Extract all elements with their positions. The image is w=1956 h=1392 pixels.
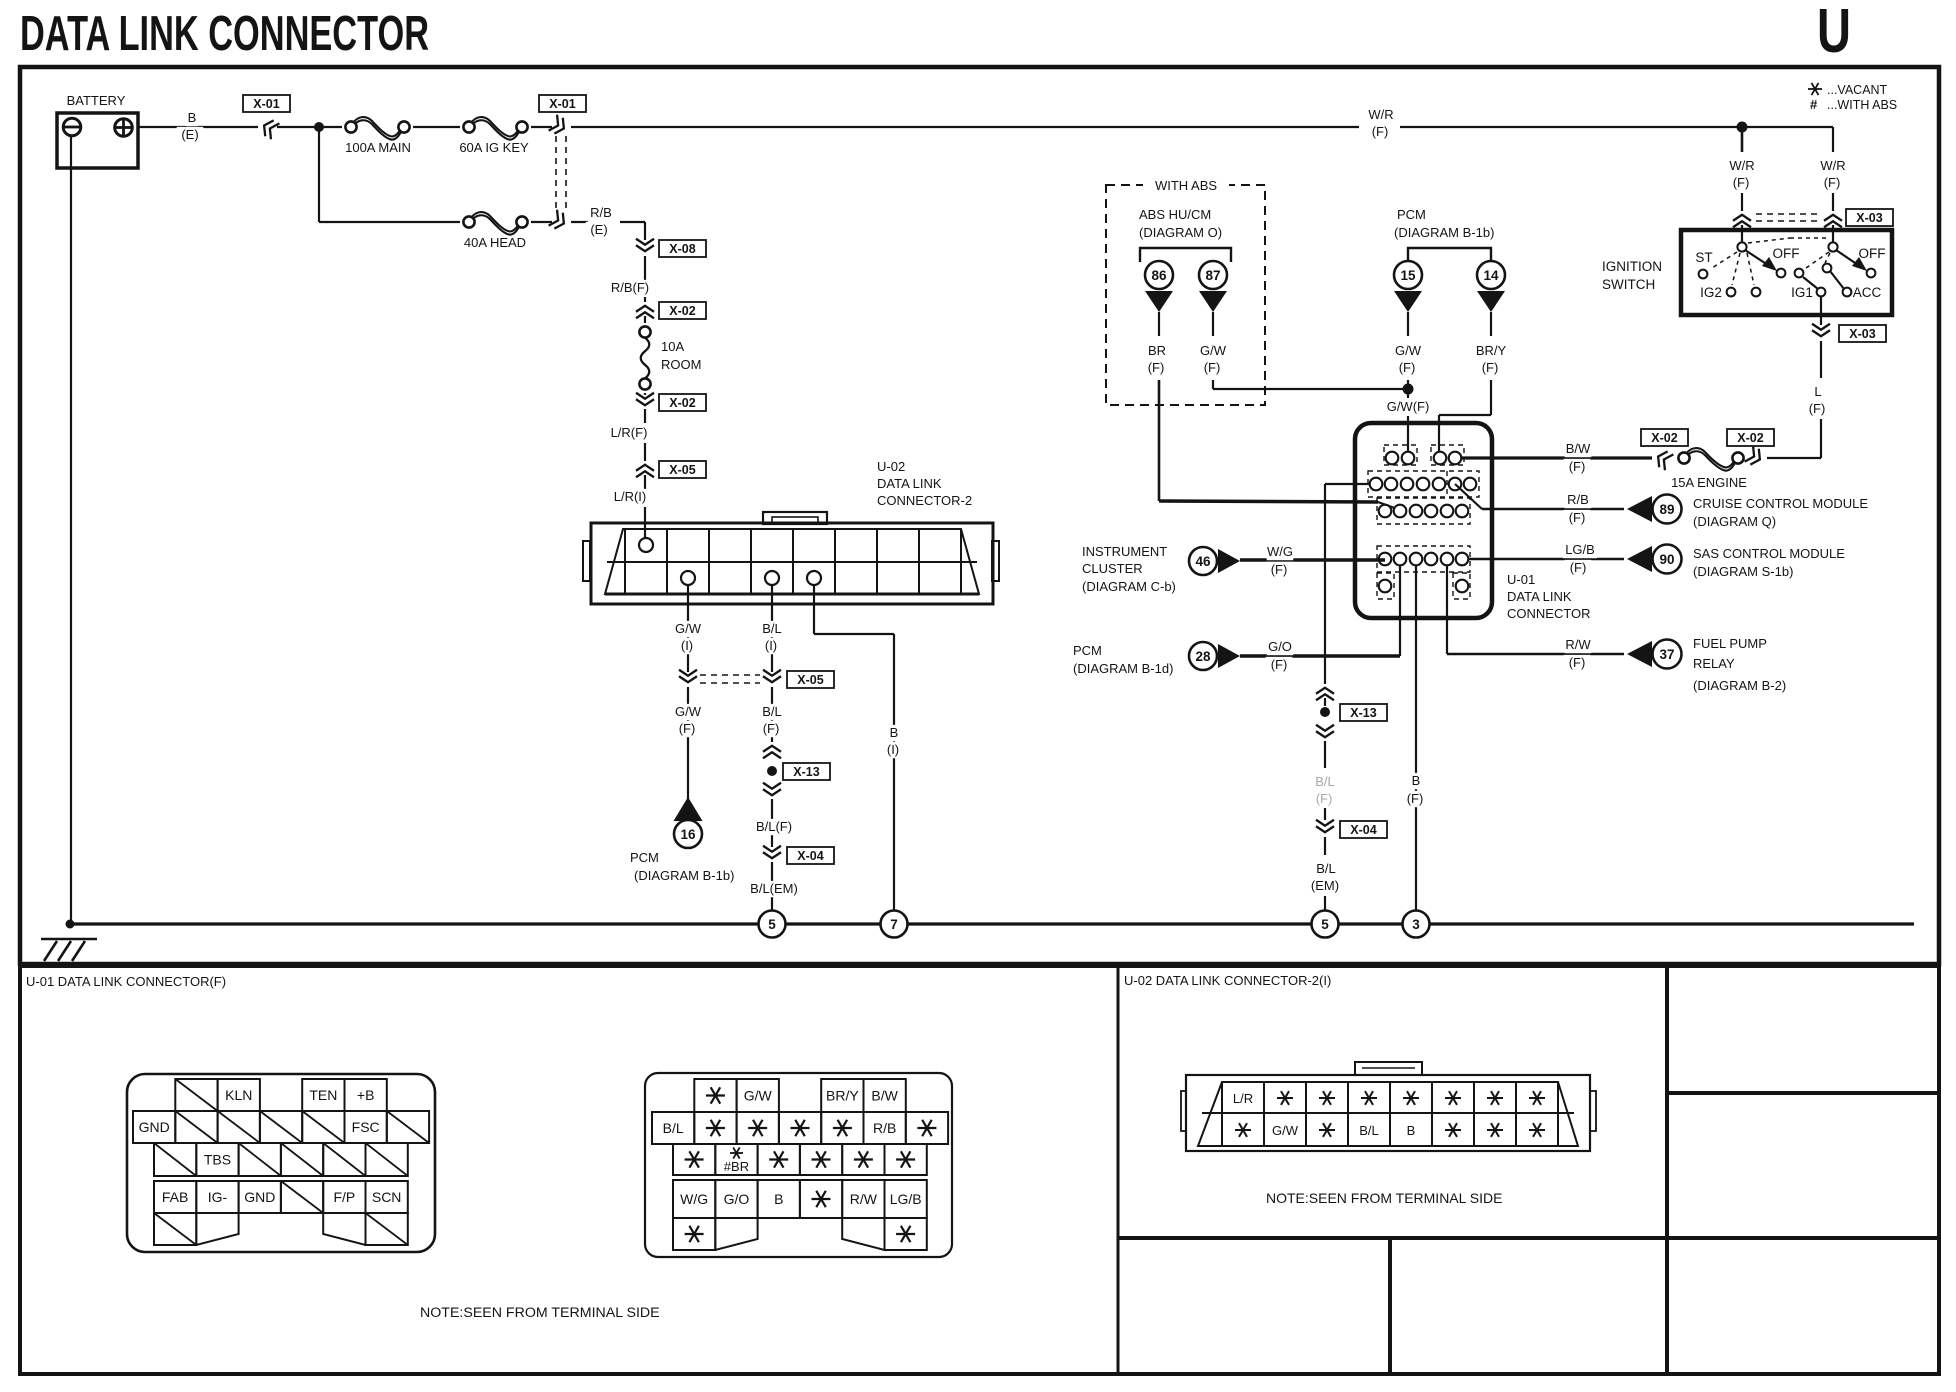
U-01 pins row5	[1379, 580, 1392, 593]
fuse 60A IG KEY	[471, 117, 521, 136]
U-01 pins row3	[1379, 505, 1392, 518]
svg-text:W/G: W/G	[680, 1191, 708, 1207]
svg-text:G/W: G/W	[1272, 1123, 1299, 1138]
svg-text:X-02: X-02	[669, 304, 695, 318]
svg-text:G/W: G/W	[744, 1088, 773, 1104]
svg-text:RELAY: RELAY	[1693, 656, 1735, 671]
svg-text:W/R: W/R	[1368, 107, 1393, 122]
ground node 3	[1403, 911, 1430, 938]
wire W/G(F)	[1240, 558, 1385, 561]
svg-text:(EM): (EM)	[1311, 878, 1339, 893]
svg-text:37: 37	[1659, 647, 1674, 662]
connector X-05	[636, 471, 654, 477]
svg-text:FSC: FSC	[352, 1119, 380, 1135]
svg-text:(E): (E)	[590, 222, 607, 237]
svg-text:X-01: X-01	[253, 97, 279, 111]
wire G/W(F) from 15	[1407, 312, 1409, 336]
svg-text:L/R(I): L/R(I)	[614, 489, 647, 504]
svg-text:B/L: B/L	[663, 1120, 684, 1136]
svg-text:OFF: OFF	[1859, 246, 1886, 261]
svg-text:7: 7	[890, 917, 898, 932]
svg-text:SCN: SCN	[372, 1189, 402, 1205]
svg-text:CRUISE CONTROL MODULE: CRUISE CONTROL MODULE	[1693, 496, 1868, 511]
svg-text:PCM: PCM	[1397, 207, 1426, 222]
svg-text:G/W: G/W	[675, 704, 702, 719]
svg-text:(I): (I)	[887, 742, 899, 757]
svg-text:ST: ST	[1695, 250, 1712, 265]
svg-text:NOTE:SEEN FROM TERMINAL SIDE: NOTE:SEEN FROM TERMINAL SIDE	[1266, 1190, 1502, 1206]
svg-text:...VACANT: ...VACANT	[1827, 83, 1888, 97]
svg-text:CLUSTER: CLUSTER	[1082, 561, 1143, 576]
U-02 pinout row5	[673, 1218, 715, 1250]
svg-text:G/O: G/O	[724, 1191, 750, 1207]
svg-text:X-03: X-03	[1849, 327, 1875, 341]
ignition switch left rotor	[1737, 242, 1746, 251]
wire B(I) from U-02 to ground 7	[813, 585, 815, 634]
wire to X-01 male	[531, 126, 552, 128]
svg-text:B/L: B/L	[762, 621, 782, 636]
svg-text:(F): (F)	[1316, 791, 1333, 806]
svg-text:LG/B: LG/B	[890, 1191, 922, 1207]
U-02 pin L/R	[639, 538, 653, 552]
svg-text:60A IG KEY: 60A IG KEY	[459, 140, 529, 155]
svg-text:15: 15	[1400, 268, 1416, 283]
wire L/R(F)	[644, 409, 646, 423]
svg-text:B/L(F): B/L(F)	[756, 819, 792, 834]
svg-text:U-01 DATA LINK CONNECTOR(F): U-01 DATA LINK CONNECTOR(F)	[26, 974, 226, 989]
svg-text:X-01: X-01	[549, 97, 575, 111]
svg-text:(DIAGRAM S-1b): (DIAGRAM S-1b)	[1693, 564, 1793, 579]
bracket PCM terminals	[1408, 248, 1491, 262]
legend vacant	[1808, 88, 1822, 90]
svg-text:X-05: X-05	[669, 463, 695, 477]
wire B/L(F) upper	[771, 687, 773, 742]
svg-text:ROOM: ROOM	[661, 357, 701, 372]
svg-text:B/W: B/W	[871, 1088, 898, 1104]
svg-text:U-02 DATA LINK CONNECTOR-2(I): U-02 DATA LINK CONNECTOR-2(I)	[1124, 973, 1331, 988]
battery	[57, 113, 138, 168]
svg-text:(I): (I)	[765, 638, 777, 653]
wire G/O(F)	[1240, 654, 1400, 657]
svg-text:SAS CONTROL MODULE: SAS CONTROL MODULE	[1693, 546, 1845, 561]
U-02 pin B/L	[765, 571, 779, 585]
svg-text:X-02: X-02	[1737, 431, 1763, 445]
terminal arrow 90 SAS control module	[1627, 546, 1652, 572]
svg-text:R/B(F): R/B(F)	[611, 280, 649, 295]
svg-text:B: B	[1412, 773, 1421, 788]
svg-text:W/G: W/G	[1267, 544, 1293, 559]
U-01 pinout row5	[154, 1213, 196, 1245]
wire LG/B(F) to SAS control	[1469, 558, 1624, 561]
svg-text:(F): (F)	[1482, 360, 1499, 375]
svg-text:FUEL PUMP: FUEL PUMP	[1693, 636, 1767, 651]
U-02 pinout row1	[694, 1079, 736, 1112]
svg-text:B: B	[774, 1191, 783, 1207]
svg-text:PCM: PCM	[1073, 643, 1102, 658]
svg-text:R/B: R/B	[873, 1120, 896, 1136]
svg-text:GND: GND	[244, 1189, 275, 1205]
junction node main feed	[314, 122, 324, 132]
svg-text:B/W: B/W	[1566, 441, 1591, 456]
svg-text:(DIAGRAM O): (DIAGRAM O)	[1139, 225, 1222, 240]
U-01 pin group boxes	[1384, 445, 1417, 465]
connector X-13 junction left	[763, 752, 781, 758]
svg-text:B/L(EM): B/L(EM)	[750, 881, 798, 896]
svg-text:R/W: R/W	[1565, 637, 1591, 652]
svg-text:#BR: #BR	[724, 1159, 749, 1174]
svg-text:CONNECTOR-2: CONNECTOR-2	[877, 493, 972, 508]
connector X-02 upper	[636, 312, 654, 318]
svg-text:FAB: FAB	[162, 1189, 188, 1205]
svg-text:B/L: B/L	[762, 704, 782, 719]
svg-text:(DIAGRAM B-1b): (DIAGRAM B-1b)	[1394, 225, 1494, 240]
wire R/B(F)	[644, 256, 646, 280]
svg-text:WITH ABS: WITH ABS	[1155, 178, 1217, 193]
dashed connector join X-05	[700, 674, 760, 676]
svg-text:(F): (F)	[1204, 360, 1221, 375]
svg-text:G/O: G/O	[1268, 639, 1292, 654]
U-02 pinout row3	[673, 1144, 715, 1175]
connector X-02 lower	[644, 393, 646, 395]
svg-text:IG1: IG1	[1791, 285, 1813, 300]
svg-text:U-01: U-01	[1507, 572, 1535, 587]
connector X-04 left	[763, 846, 781, 852]
bottom panel frame	[20, 966, 1939, 1374]
wire BR/Y from 14	[1490, 312, 1492, 336]
svg-text:3: 3	[1412, 917, 1420, 932]
panel divider horizontal middle	[1118, 1236, 1939, 1240]
panel divider left	[1117, 966, 1120, 1374]
svg-text:...WITH ABS: ...WITH ABS	[1827, 98, 1897, 112]
wire to 10A ROOM fuse	[644, 316, 646, 323]
svg-text:B/L: B/L	[1315, 774, 1335, 789]
svg-text:ACC: ACC	[1853, 285, 1882, 300]
wire L/R(I)	[644, 475, 646, 489]
svg-text:KLN: KLN	[225, 1087, 252, 1103]
terminal 46 instrument cluster	[1189, 547, 1217, 575]
svg-text:OFF: OFF	[1773, 246, 1800, 261]
svg-text:+B: +B	[357, 1087, 375, 1103]
fuse 100A MAIN	[353, 117, 403, 136]
svg-text:16: 16	[680, 827, 696, 842]
svg-text:(F): (F)	[679, 721, 696, 736]
connector X-05 pair right	[763, 670, 781, 676]
connector X-03 lower	[1812, 324, 1830, 330]
wire B/L(F) lower	[771, 799, 773, 847]
U-01 pins row2	[1370, 478, 1383, 491]
svg-text:L/R(F): L/R(F)	[611, 425, 648, 440]
svg-text:(F): (F)	[1569, 459, 1586, 474]
svg-text:89: 89	[1659, 502, 1674, 517]
ground node 5 left	[759, 911, 786, 938]
svg-text:NOTE:SEEN FROM TERMINAL SIDE: NOTE:SEEN FROM TERMINAL SIDE	[420, 1305, 660, 1321]
svg-text:(F): (F)	[763, 721, 780, 736]
svg-text:PCM: PCM	[630, 850, 659, 865]
svg-text:TEN: TEN	[309, 1087, 337, 1103]
svg-text:IG2: IG2	[1700, 285, 1722, 300]
svg-text:(F): (F)	[1809, 401, 1826, 416]
U-02 pinout row4	[673, 1180, 715, 1218]
U-02 pin G/W	[681, 571, 695, 585]
U-01 pinout connector outline	[127, 1074, 435, 1252]
wire R/B(E)	[571, 221, 588, 223]
svg-text:L/R: L/R	[1233, 1091, 1253, 1106]
connector X-05 pair left	[679, 670, 697, 676]
connector X-01 male head circuit	[549, 210, 568, 232]
branch wire to 40A HEAD fuse	[318, 127, 320, 222]
svg-text:L: L	[1814, 384, 1821, 399]
terminal 28 PCM	[1189, 642, 1217, 670]
wire B/L(F) right chain	[1325, 483, 1369, 485]
svg-text:W/R: W/R	[1729, 158, 1754, 173]
connector X-03 pair	[1733, 221, 1751, 227]
svg-text:5: 5	[768, 917, 776, 932]
svg-text:DATA LINK: DATA LINK	[877, 476, 942, 491]
wire B(F) to ground 3	[1415, 566, 1417, 911]
svg-text:40A HEAD: 40A HEAD	[464, 235, 526, 250]
svg-text:B/L: B/L	[1359, 1123, 1379, 1138]
wire W/R to ignition switch area	[571, 126, 1359, 128]
svg-text:R/B: R/B	[1567, 492, 1589, 507]
svg-text:BR/Y: BR/Y	[1476, 343, 1507, 358]
terminal 14	[1477, 261, 1505, 289]
dashed connector join X-01	[555, 136, 557, 212]
U-01 pins row1	[1386, 452, 1399, 465]
ground node 7	[881, 911, 908, 938]
svg-text:X-03: X-03	[1856, 211, 1882, 225]
connector X-02 engine right	[1727, 429, 1774, 446]
wire L(F) from IG1	[1820, 296, 1822, 325]
terminal arrow PCM pin 16	[674, 797, 703, 821]
fuse 40A HEAD	[471, 212, 521, 231]
svg-text:BR: BR	[1148, 343, 1166, 358]
panel divider right column	[1667, 1091, 1939, 1095]
wire B/L(EM) right to ground 5	[1324, 837, 1326, 855]
svg-text:5: 5	[1321, 917, 1329, 932]
wire B/L(I) from U-02	[771, 585, 773, 672]
svg-text:X-13: X-13	[793, 765, 819, 779]
svg-text:SWITCH: SWITCH	[1602, 277, 1655, 292]
bracket ABS terminals	[1140, 248, 1231, 262]
U-02 data link connector-2 body	[591, 523, 993, 604]
svg-text:BR/Y: BR/Y	[826, 1088, 859, 1104]
svg-text:IGNITION: IGNITION	[1602, 259, 1662, 274]
svg-text:(DIAGRAM C-b): (DIAGRAM C-b)	[1082, 579, 1176, 594]
svg-text:(F): (F)	[1372, 124, 1389, 139]
svg-text:W/R: W/R	[1820, 158, 1845, 173]
svg-text:X-02: X-02	[669, 396, 695, 410]
svg-text:CONNECTOR: CONNECTOR	[1507, 606, 1591, 621]
svg-text:G/W: G/W	[1395, 343, 1422, 358]
svg-text:(F): (F)	[1148, 360, 1165, 375]
connector X-08	[636, 239, 654, 245]
ground bus	[66, 920, 75, 929]
U-01 pinout row3	[154, 1143, 196, 1176]
U-01 pinout row1	[175, 1079, 217, 1111]
svg-text:(DIAGRAM B-1d): (DIAGRAM B-1d)	[1073, 661, 1173, 676]
U-01 pinout row4	[154, 1181, 196, 1213]
junction G/W node	[1403, 384, 1414, 395]
fuse 10A ROOM	[641, 338, 650, 379]
terminal 86	[1145, 261, 1173, 289]
wire W/R junction to ignition switch	[1737, 122, 1748, 133]
U-01 pinout row2	[133, 1111, 175, 1143]
svg-text:28: 28	[1195, 649, 1211, 664]
wire B/L(EM) to ground 5	[771, 862, 773, 911]
svg-text:(E): (E)	[181, 127, 198, 142]
terminal arrow 89 cruise control module	[1627, 496, 1652, 522]
fuse 15A ENGINE	[1686, 448, 1737, 467]
wire BR(F) from 86	[1158, 312, 1160, 336]
connector X-02 engine left	[1641, 429, 1688, 446]
connector X-01 female	[243, 95, 290, 112]
battery ground wire	[70, 136, 72, 924]
U-02-2 pinout connector outline	[1186, 1075, 1590, 1151]
svg-text:G/W: G/W	[675, 621, 702, 636]
svg-text:(F): (F)	[1399, 360, 1416, 375]
connector X-13 junction right	[1324, 698, 1326, 706]
ignition switch box	[1681, 230, 1892, 315]
svg-text:87: 87	[1205, 268, 1220, 283]
svg-text:B: B	[1407, 1123, 1416, 1138]
svg-text:14: 14	[1483, 268, 1499, 283]
wiper line right rotor	[1803, 277, 1818, 289]
svg-text:U: U	[1817, 0, 1851, 66]
terminal arrow 37 fuel pump relay	[1627, 641, 1652, 667]
svg-text:90: 90	[1659, 552, 1674, 567]
wire B/L(F) faint label	[1312, 774, 1339, 790]
main schematic frame	[20, 67, 1939, 964]
wire B/W(F) to 15A ENGINE fuse	[1462, 456, 1652, 459]
svg-text:ABS HU/CM: ABS HU/CM	[1139, 207, 1211, 222]
with ABS dashed box	[1106, 185, 1265, 405]
svg-text:B/L: B/L	[1316, 861, 1336, 876]
svg-text:#: #	[1810, 97, 1818, 112]
wire R/W(F) to fuel pump relay	[1446, 566, 1448, 654]
svg-text:TBS: TBS	[204, 1152, 231, 1168]
svg-text:X-04: X-04	[1350, 823, 1376, 837]
U-02 pinout row2	[652, 1112, 694, 1144]
terminal 15	[1394, 261, 1422, 289]
svg-text:DATA LINK CONNECTOR: DATA LINK CONNECTOR	[20, 7, 429, 61]
svg-text:15A ENGINE: 15A ENGINE	[1671, 475, 1747, 490]
svg-text:DATA LINK: DATA LINK	[1507, 589, 1572, 604]
svg-text:G/W: G/W	[1200, 343, 1227, 358]
svg-text:GND: GND	[139, 1119, 170, 1135]
ground symbol	[41, 938, 97, 941]
connector X-01 male	[539, 95, 586, 112]
terminal 87	[1199, 261, 1227, 289]
svg-text:(F): (F)	[1407, 791, 1424, 806]
svg-text:X-05: X-05	[797, 673, 823, 687]
svg-text:(F): (F)	[1271, 657, 1288, 672]
connector X-04 right	[1316, 820, 1334, 826]
svg-text:B: B	[890, 725, 899, 740]
svg-text:100A MAIN: 100A MAIN	[345, 140, 411, 155]
wire X-01 to junction and fuses	[277, 126, 342, 128]
svg-text:86: 86	[1151, 268, 1167, 283]
wire between fuses	[413, 126, 460, 128]
U-02 pin B	[807, 571, 821, 585]
svg-text:R/B: R/B	[590, 205, 612, 220]
svg-text:X-04: X-04	[797, 849, 823, 863]
svg-text:(F): (F)	[1824, 175, 1841, 190]
svg-text:X-08: X-08	[669, 242, 695, 256]
svg-text:(DIAGRAM Q): (DIAGRAM Q)	[1693, 514, 1776, 529]
ignition switch right rotor	[1828, 242, 1837, 251]
svg-text:B: B	[188, 110, 197, 125]
svg-text:(I): (I)	[681, 638, 693, 653]
svg-text:10A: 10A	[661, 339, 684, 354]
panel divider bottom middle	[1388, 1238, 1392, 1374]
wire G/W(F) to PCM 16	[687, 687, 689, 800]
U-01 data link connector body	[1355, 423, 1492, 618]
svg-text:(F): (F)	[1570, 560, 1587, 575]
U-02 pinout connector outline	[645, 1073, 952, 1257]
svg-text:(DIAGRAM B-2): (DIAGRAM B-2)	[1693, 678, 1786, 693]
svg-text:U-02: U-02	[877, 459, 905, 474]
svg-text:G/W(F): G/W(F)	[1387, 399, 1430, 414]
wire battery B(E) to X-01	[138, 126, 258, 128]
svg-text:X-13: X-13	[1350, 706, 1376, 720]
svg-text:F/P: F/P	[333, 1189, 355, 1205]
svg-text:IG-: IG-	[208, 1189, 228, 1205]
svg-text:(F): (F)	[1733, 175, 1750, 190]
svg-text:(F): (F)	[1569, 655, 1586, 670]
svg-text:LG/B: LG/B	[1565, 542, 1595, 557]
svg-text:(DIAGRAM B-1b): (DIAGRAM B-1b)	[634, 868, 734, 883]
svg-text:R/W: R/W	[850, 1191, 878, 1207]
U-01 pins row4	[1379, 553, 1392, 566]
svg-text:(F): (F)	[1569, 510, 1586, 525]
svg-text:BATTERY: BATTERY	[67, 93, 126, 108]
svg-text:(F): (F)	[1271, 562, 1288, 577]
svg-text:46: 46	[1195, 554, 1211, 569]
svg-text:INSTRUMENT: INSTRUMENT	[1082, 544, 1167, 559]
panel divider right	[1665, 966, 1669, 1374]
ground node 5 right	[1312, 911, 1339, 938]
svg-text:X-02: X-02	[1651, 431, 1677, 445]
wire R/B(F) to cruise control	[1455, 484, 1482, 509]
wire G/W(I) from U-02	[687, 585, 689, 672]
wire G/W(F) from 87	[1212, 312, 1214, 336]
wire W/R right branch	[1742, 126, 1833, 128]
